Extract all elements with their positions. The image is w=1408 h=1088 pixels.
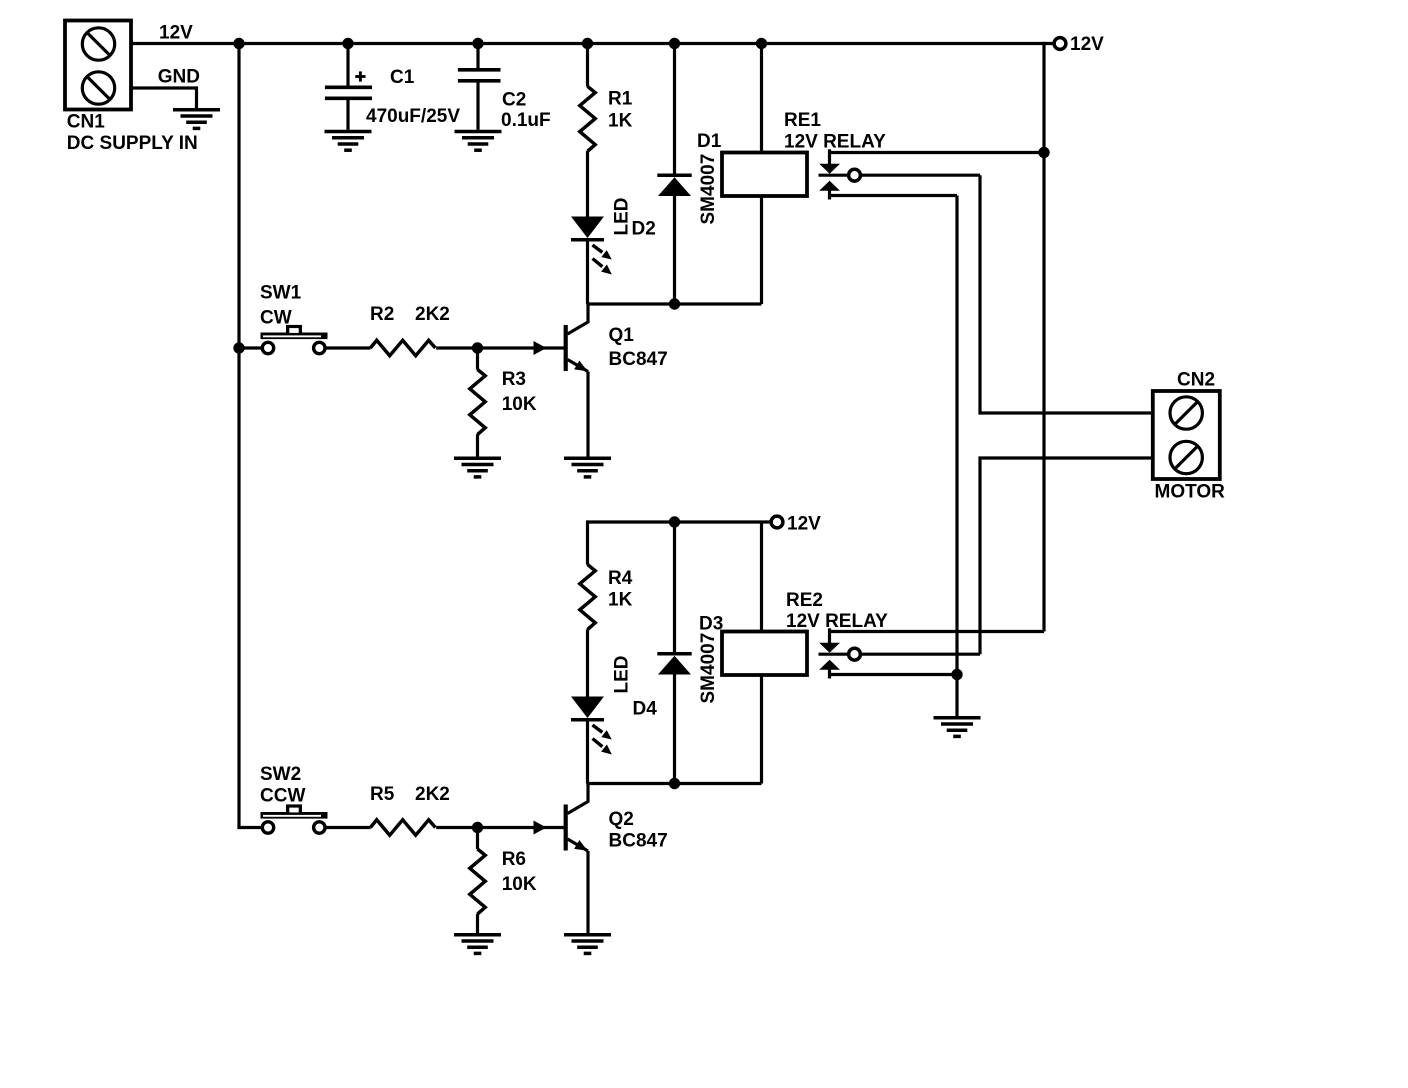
svg-text:CN1: CN1 — [67, 112, 105, 133]
svg-text:Q1: Q1 — [609, 325, 635, 346]
svg-text:12V RELAY: 12V RELAY — [786, 611, 888, 632]
node junction bus/R1 — [582, 38, 593, 49]
label R4 — [608, 568, 633, 589]
wire SW1 branch stub — [239, 346, 262, 349]
label SM4007 (D3) — [698, 633, 719, 704]
wire GND from CN1 to ground — [131, 86, 197, 108]
label 10K (R3) — [502, 394, 537, 415]
wire SW column from bus down to SW2 — [237, 44, 262, 828]
label 10K (R6) — [502, 874, 537, 895]
ground (Q2 emitter) — [564, 935, 611, 954]
label 2K2 (R5) — [415, 784, 450, 805]
label C2 — [502, 90, 526, 111]
relay contact RE2 (SPDT) — [819, 628, 1045, 678]
connector CN1 (DC supply terminal block) — [65, 21, 131, 110]
label SM4007 (D1) — [698, 154, 719, 225]
node junction R6 top — [472, 822, 483, 833]
wire bus to C1 — [346, 44, 349, 86]
label 1K (R4) — [608, 589, 633, 610]
capacitor C1 (polarized) — [325, 71, 372, 98]
label 12V (top right) — [1070, 34, 1104, 55]
svg-text:RE1: RE1 — [784, 110, 821, 131]
wire RE1 NC down to ground bus — [955, 196, 958, 717]
wire R2 to Q1 base — [436, 346, 564, 349]
label R2 — [370, 304, 394, 325]
label CN1 — [67, 112, 105, 133]
wire D4 to collector node — [586, 722, 589, 784]
svg-text:Q2: Q2 — [609, 809, 634, 830]
svg-text:SW2: SW2 — [260, 764, 301, 785]
terminal 12V (lower) — [771, 516, 783, 528]
svg-text:SM4007: SM4007 — [698, 154, 719, 225]
label D4 — [633, 698, 658, 719]
diode D1 SM4007 — [657, 175, 691, 196]
label MOTOR — [1155, 482, 1226, 503]
label RE2 — [786, 590, 823, 611]
wire lower 12V bus — [588, 520, 770, 523]
svg-text:DC SUPPLY IN: DC SUPPLY IN — [67, 133, 198, 154]
svg-text:D3: D3 — [699, 614, 723, 635]
label D2 — [632, 219, 656, 240]
relay coil RE1 — [722, 153, 807, 197]
label RE1 — [784, 110, 821, 131]
ground (relay contacts) — [934, 718, 981, 737]
label R3 — [502, 369, 526, 390]
ground (C2) — [455, 132, 502, 151]
ground (CN1 GND) — [173, 110, 220, 129]
node junction bus/C1 — [342, 38, 353, 49]
resistor R1 — [580, 86, 595, 151]
wire RE1 coil to collector node — [760, 196, 763, 304]
wire bus to R1 — [586, 44, 589, 87]
wire D1 to collector node — [673, 196, 676, 304]
relay coil RE2 — [722, 632, 807, 676]
node junction D1 bottom — [669, 298, 680, 309]
label R1 — [608, 88, 633, 109]
svg-text:R3: R3 — [502, 369, 526, 390]
LED D4 — [571, 697, 612, 755]
svg-text:470uF/25V: 470uF/25V — [366, 106, 460, 127]
resistor R3 — [470, 348, 485, 457]
wire D2 to collector node — [586, 242, 589, 305]
node junction SW1 branch — [233, 342, 244, 353]
ground (R6) — [454, 935, 501, 954]
label CW — [260, 307, 292, 328]
terminal 12V (top right) — [1054, 38, 1066, 50]
svg-text:CCW: CCW — [260, 786, 305, 807]
wire SW1 to R2 — [325, 346, 371, 349]
label SW2 — [260, 764, 301, 785]
node junction RE1 NO to 12V rail — [1038, 147, 1049, 158]
svg-text:LED: LED — [612, 656, 633, 694]
svg-text:R1: R1 — [608, 88, 633, 109]
svg-text:2K2: 2K2 — [415, 784, 450, 805]
svg-text:12V RELAY: 12V RELAY — [784, 131, 886, 152]
wire bus to RE1 coil — [760, 44, 763, 153]
svg-text:12V: 12V — [1070, 34, 1104, 55]
node junction D3 bottom — [669, 778, 680, 789]
node junction R3 top — [472, 342, 483, 353]
wire R4 to D4 — [586, 629, 589, 696]
node junction bus/RE1 coil — [756, 38, 767, 49]
wire lower bus to R4 — [586, 520, 589, 564]
label 12V (top-left net) — [159, 22, 193, 43]
label 12V (lower) — [787, 513, 821, 534]
svg-text:BC847: BC847 — [609, 831, 668, 852]
node junction NC ground bus — [951, 669, 962, 680]
svg-text:2K2: 2K2 — [415, 304, 450, 325]
label 2K2 (R2) — [415, 304, 450, 325]
svg-text:R2: R2 — [370, 304, 394, 325]
svg-text:SM4007: SM4007 — [698, 633, 719, 704]
label Q1 — [609, 325, 635, 346]
label CN2 — [1177, 369, 1215, 390]
label Q2 — [609, 809, 634, 830]
svg-text:MOTOR: MOTOR — [1155, 482, 1226, 503]
wire bus to D1 — [673, 44, 676, 174]
svg-text:D2: D2 — [632, 219, 656, 240]
svg-text:D1: D1 — [697, 131, 722, 152]
ground (Q1 emitter) — [564, 458, 611, 477]
resistor R2 — [370, 340, 435, 355]
label D3 — [699, 614, 723, 635]
svg-text:C2: C2 — [502, 90, 526, 111]
svg-text:CN2: CN2 — [1177, 369, 1215, 390]
LED D2 — [571, 217, 612, 275]
diode D3 SM4007 — [657, 654, 691, 675]
label DC SUPPLY IN — [67, 133, 198, 154]
node junction bus/D1 — [669, 38, 680, 49]
wire RE1 common to motor (CN2 pin 1) — [980, 175, 1167, 413]
ground (C1) — [325, 132, 372, 151]
label SW1 — [260, 282, 302, 303]
svg-text:D4: D4 — [633, 698, 658, 719]
wire RE2 coil to collector node — [760, 675, 763, 784]
wire C1 to ground — [346, 100, 349, 130]
svg-text:LED: LED — [612, 198, 633, 236]
label LED (D2) — [612, 198, 633, 236]
svg-text:12V: 12V — [787, 513, 821, 534]
wire SW2 to R5 — [325, 826, 371, 829]
svg-text:R6: R6 — [502, 849, 526, 870]
label CCW — [260, 786, 305, 807]
resistor R5 — [370, 820, 435, 835]
label R5 — [370, 784, 395, 805]
transistor Q2 BC847 — [534, 784, 589, 934]
svg-text:1K: 1K — [608, 589, 633, 610]
node junction bus/C2 — [472, 38, 483, 49]
svg-text:C1: C1 — [390, 67, 415, 88]
svg-text:R4: R4 — [608, 568, 633, 589]
svg-text:CW: CW — [260, 307, 292, 328]
label 0.1uF — [501, 110, 551, 131]
wire top 12V bus — [131, 42, 1053, 45]
transistor Q1 BC847 — [534, 304, 589, 457]
label 12V RELAY (RE2) — [786, 611, 888, 632]
label 12V RELAY (RE1) — [784, 131, 886, 152]
label C1 — [390, 67, 415, 88]
label LED (D4) — [612, 656, 633, 694]
svg-text:RE2: RE2 — [786, 590, 823, 611]
wire collector node row 2 — [588, 782, 762, 785]
svg-text:10K: 10K — [502, 394, 537, 415]
switch SW1 (pushbutton CW) — [261, 325, 328, 354]
label 1K (R1) — [608, 110, 633, 131]
wire bus to C2 — [476, 44, 479, 69]
capacitor C2 — [458, 70, 501, 81]
node junction bus/SW column — [233, 38, 244, 49]
label GND net — [158, 66, 200, 87]
svg-text:0.1uF: 0.1uF — [501, 110, 551, 131]
svg-text:10K: 10K — [502, 874, 537, 895]
switch SW2 (pushbutton CCW) — [261, 804, 328, 833]
svg-text:SW1: SW1 — [260, 282, 302, 303]
label D1 — [697, 131, 722, 152]
node junction lower bus/D3 — [669, 516, 680, 527]
ground (R3) — [454, 458, 501, 477]
label R6 — [502, 849, 526, 870]
svg-text:1K: 1K — [608, 110, 633, 131]
wire lower bus to D3 — [673, 522, 676, 652]
svg-text:R5: R5 — [370, 784, 395, 805]
wire collector node row 1 — [588, 302, 762, 305]
label BC847 (Q1) — [609, 349, 668, 370]
svg-text:GND: GND — [158, 66, 200, 87]
wire C2 to ground — [476, 83, 479, 130]
wire R1 to D2 — [586, 151, 589, 217]
wire D3 to collector node — [673, 675, 676, 784]
label 470uF/25V — [366, 106, 460, 127]
resistor R6 — [470, 828, 485, 934]
svg-text:BC847: BC847 — [609, 349, 668, 370]
wire R5 to Q2 base — [436, 826, 564, 829]
svg-text:12V: 12V — [159, 22, 193, 43]
label BC847 (Q2) — [609, 831, 668, 852]
wire lower bus to RE2 coil — [760, 522, 763, 632]
resistor R4 — [580, 565, 595, 630]
connector CN2 (motor terminal block) — [1153, 391, 1220, 479]
wire 12V rail right side down — [1042, 42, 1045, 632]
wire RE2 common to motor (CN2 pin 2) — [980, 458, 1167, 654]
relay contact RE1 (SPDT) — [819, 149, 1045, 199]
